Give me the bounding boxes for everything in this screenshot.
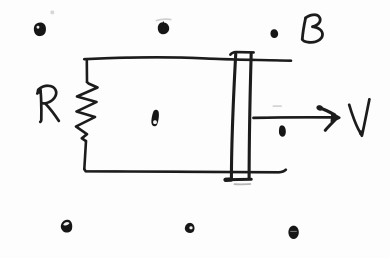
rod (moving conductor) left bar xyxy=(231,53,235,179)
field dot (right of rod) xyxy=(279,125,286,136)
wire: left side top segment xyxy=(86,59,89,82)
field dot (bottom middle) xyxy=(185,223,195,233)
field dot (bottom left) xyxy=(61,220,72,233)
resistor R xyxy=(76,82,98,141)
field dot (bottom right) xyxy=(288,226,298,239)
faint smudge above arrow xyxy=(273,105,283,107)
rod (moving conductor) right bar xyxy=(249,53,251,179)
faint smudge dot top left xyxy=(50,10,54,14)
label B xyxy=(302,15,322,43)
field dot (top middle) xyxy=(158,21,169,34)
wire: left side bottom segment xyxy=(84,141,86,169)
field dot (near B) xyxy=(270,29,278,38)
wire: top rail xyxy=(84,57,291,60)
velocity arrow v head xyxy=(316,104,340,130)
rod bottom cap xyxy=(225,179,251,184)
label V xyxy=(349,99,369,135)
wire: bottom rail xyxy=(84,169,285,173)
field dot (inside loop) xyxy=(151,110,159,127)
rod top cap xyxy=(230,52,253,55)
velocity arrow v shaft xyxy=(254,116,334,119)
field dot (top left) xyxy=(34,23,46,37)
faint smudge above top-middle field dot xyxy=(157,19,171,20)
label R xyxy=(37,86,59,122)
